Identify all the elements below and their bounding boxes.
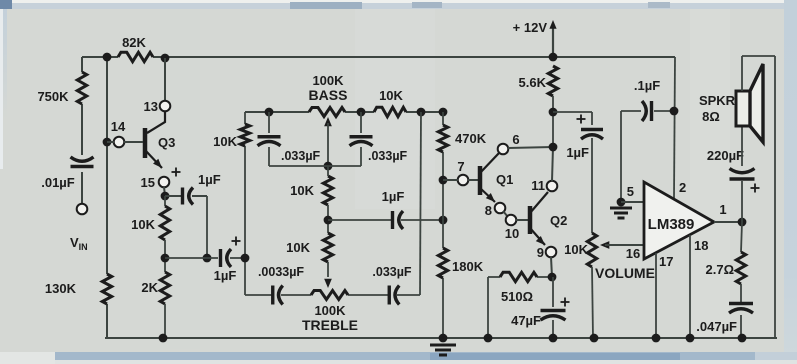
- label 6: [512, 132, 519, 147]
- resistor 5.6K: [548, 66, 557, 96]
- junction mid row left: [324, 216, 333, 225]
- svg-text:470K: 470K: [455, 131, 487, 146]
- svg-text:17: 17: [659, 254, 673, 269]
- junction volume at rail: [590, 334, 599, 343]
- label 2: [679, 180, 686, 195]
- label 1µF (output coupling): [566, 145, 589, 160]
- label 9: [537, 245, 544, 260]
- svg-text:130K: 130K: [45, 281, 77, 296]
- wire Q3 collector column: [164, 58, 166, 101]
- junction Q2 emitter node: [548, 273, 557, 282]
- wire pin11 up: [552, 147, 553, 181]
- svg-text:2: 2: [679, 180, 686, 195]
- wire volume to rail: [592, 267, 593, 338]
- op-amp U1 LM389: [644, 182, 714, 259]
- label 5.6K: [519, 75, 547, 90]
- label .033µF (treble right): [372, 265, 412, 279]
- wire 220µF to speaker: [741, 126, 743, 166]
- svg-text:.1µF: .1µF: [634, 78, 660, 93]
- label 17: [659, 254, 673, 269]
- svg-text:180K: 180K: [452, 259, 484, 274]
- label Q1: [496, 172, 513, 187]
- resistor 510Ω: [500, 272, 537, 281]
- wire 510 row: [488, 276, 552, 278]
- svg-text:100K: 100K: [312, 73, 344, 88]
- wire pin9 down: [551, 257, 552, 277]
- wire mid row: [328, 219, 443, 221]
- label 130K: [45, 281, 77, 296]
- svg-text:13: 13: [144, 99, 158, 114]
- svg-text:2K: 2K: [141, 280, 158, 295]
- svg-text:1µF: 1µF: [566, 145, 589, 160]
- junction 180K at rail: [439, 334, 448, 343]
- resistor 10K (bass series): [374, 107, 406, 116]
- resistor 82K: [118, 52, 153, 61]
- svg-text:10K: 10K: [131, 217, 155, 232]
- wire pin13 to Q3 collector: [147, 111, 165, 133]
- wire volume wiper to pin16: [600, 241, 644, 249]
- resistor 2.7Ω: [736, 222, 745, 284]
- label .033µF (bass left): [281, 149, 321, 163]
- label 8: [485, 203, 492, 218]
- wire pin17: [655, 253, 657, 338]
- wire Q3 bias column x=107: [106, 57, 108, 338]
- svg-text:5.6K: 5.6K: [519, 75, 547, 90]
- svg-text:.01µF: .01µF: [41, 175, 75, 190]
- capacitor .1µF: [621, 101, 674, 121]
- label .033µF (bass right): [368, 149, 408, 163]
- wire 2K to ground rail: [164, 304, 166, 338]
- label 11: [531, 178, 545, 193]
- wire pin2 column: [674, 57, 675, 198]
- svg-text:.033µF: .033µF: [281, 149, 321, 163]
- junction pin5 node: [617, 198, 626, 207]
- label 47µF: [511, 313, 541, 328]
- capacitor 1µF (emitter bypass): [165, 188, 207, 259]
- svg-text:47µF: 47µF: [511, 313, 541, 328]
- svg-text:10K: 10K: [286, 240, 310, 255]
- pin 11: [547, 181, 558, 192]
- wire bass caps bottom row: [269, 165, 361, 167]
- svg-text:10K: 10K: [379, 88, 403, 103]
- label 1µF (treble feed): [382, 189, 405, 204]
- label 10K (lower middle): [286, 240, 310, 255]
- transistor Q1: [480, 153, 499, 205]
- junction below pin15: [161, 192, 170, 201]
- wire .047µF to rail: [740, 315, 742, 338]
- svg-text:Q1: Q1: [496, 172, 513, 187]
- junction output node: [738, 218, 747, 227]
- capacitor 220µF: [730, 169, 755, 180]
- svg-text:6: 6: [512, 132, 519, 147]
- pin 14: [114, 137, 125, 148]
- wire bottom ground rail: [105, 337, 777, 339]
- junction mid row right: [439, 216, 448, 225]
- wire to coupling cap: [553, 112, 592, 125]
- junction tone out at 470K top: [439, 108, 448, 117]
- label 18: [694, 238, 708, 253]
- wire output up to 220µF: [741, 181, 743, 222]
- label 10K (volume): [564, 242, 588, 257]
- wire treble wiper: [324, 262, 332, 288]
- label + at 1µF coupling: [232, 237, 241, 246]
- svg-text:.033µF: .033µF: [368, 149, 408, 163]
- junction 1µF-cap tap: [203, 254, 212, 263]
- pin 9: [546, 247, 557, 258]
- resistor 10K (upper middle): [323, 176, 332, 205]
- capacitor 1µF (coupling to tone): [221, 249, 246, 267]
- wire emitter node column: [164, 240, 166, 272]
- label 10K (emitter): [131, 217, 155, 232]
- wire cap to volume pot: [591, 138, 593, 233]
- label +12V: [513, 20, 548, 35]
- resistor 180K: [438, 248, 447, 278]
- junction at 82K left: [103, 53, 112, 62]
- potentiometer 100K BASS: [309, 108, 345, 117]
- wire middle column: [327, 166, 329, 220]
- label 100K (treble): [314, 303, 346, 318]
- label 1: [719, 202, 726, 217]
- junction .047µF at rail: [738, 334, 747, 343]
- resistor 750K: [77, 72, 86, 104]
- label 2K: [141, 280, 158, 295]
- ground pin5: [610, 208, 632, 218]
- svg-text:220µF: 220µF: [707, 148, 744, 163]
- label 14: [111, 119, 126, 134]
- label 750K: [37, 89, 69, 104]
- label + at 220µF: [751, 184, 760, 193]
- wire +12V arrow: [549, 20, 556, 57]
- label SPKR: [699, 93, 736, 108]
- junction 1µF tap: [549, 108, 558, 117]
- junction emitter-RC node: [161, 254, 170, 263]
- capacitor 1µF (output coupling): [581, 130, 603, 140]
- svg-text:5: 5: [627, 184, 634, 199]
- svg-text:.033µF: .033µF: [372, 265, 412, 279]
- label .047µF: [696, 319, 737, 334]
- svg-text:10: 10: [505, 226, 519, 241]
- svg-text:LM389: LM389: [648, 216, 695, 233]
- svg-text:8: 8: [485, 203, 492, 218]
- wire .1µF left column: [620, 111, 622, 202]
- capacitor 47µF: [541, 277, 566, 338]
- label LM389: [648, 216, 695, 233]
- wire tone top row: [245, 111, 443, 113]
- wire 5.6K down: [552, 96, 554, 147]
- node V_IN terminal: [77, 204, 88, 215]
- label 82K: [122, 35, 146, 50]
- wire 2.7Ω to .047µF: [740, 284, 742, 302]
- svg-text:10K: 10K: [290, 183, 314, 198]
- svg-text:750K: 750K: [37, 89, 69, 104]
- label .01µF: [41, 175, 75, 190]
- wire treble bottom row: [245, 294, 420, 296]
- wire left input column (750K/V_IN branch): [81, 57, 83, 203]
- svg-text:16: 16: [626, 246, 640, 261]
- label 5: [627, 184, 634, 199]
- label 220µF: [707, 148, 744, 163]
- svg-text:BASS: BASS: [309, 87, 348, 103]
- wire pin15 down: [164, 187, 165, 196]
- junction supply rail tap: [549, 53, 558, 62]
- label V_IN: [70, 235, 88, 252]
- label + at 47µF: [561, 298, 570, 307]
- junction tone input node: [241, 254, 250, 263]
- wire pin8 to pin10: [503, 211, 508, 217]
- junction 2K at rail: [159, 334, 168, 343]
- wire pin6 to supply node: [508, 147, 553, 148]
- pin 6: [498, 144, 509, 155]
- svg-text:82K: 82K: [122, 35, 146, 50]
- wire pin5: [621, 201, 644, 203]
- capacitor .033µF (bass left): [258, 112, 281, 166]
- label .1µF: [634, 78, 660, 93]
- resistor 10K (tone input): [240, 124, 249, 146]
- capacitor .01µF: [71, 157, 94, 167]
- svg-text:10K: 10K: [564, 242, 588, 257]
- capacitor .033µF (bass right): [350, 112, 373, 166]
- wire tone input column x=245: [244, 112, 246, 295]
- label 1µF (coupling): [214, 268, 237, 283]
- speaker SPKR: [736, 64, 763, 142]
- resistor 470K: [438, 125, 447, 152]
- junction pin18 at rail: [686, 334, 695, 343]
- junction pin6/11 node: [549, 143, 558, 152]
- label 2.7Ω: [706, 262, 735, 277]
- label 13: [144, 99, 158, 114]
- svg-text:1: 1: [719, 202, 726, 217]
- svg-text:SPKR: SPKR: [699, 93, 736, 108]
- junction .1µF right: [670, 107, 679, 116]
- svg-text:8Ω: 8Ω: [702, 109, 720, 124]
- svg-text:1µF: 1µF: [198, 172, 221, 187]
- junction tone out top: [417, 108, 426, 117]
- svg-text:Q3: Q3: [158, 135, 175, 150]
- wire pin10 to Q2 base: [516, 219, 528, 221]
- wire node row y258: [165, 257, 218, 259]
- svg-text:1µF: 1µF: [214, 268, 237, 283]
- pin 13: [160, 101, 171, 112]
- junction bass cap left: [265, 108, 274, 117]
- pin 10: [506, 215, 517, 226]
- capacitor .033µF (treble right): [389, 286, 399, 305]
- wire 510 left leg: [487, 277, 489, 338]
- label 15: [141, 175, 155, 190]
- svg-text:14: 14: [111, 119, 126, 134]
- wire right edge return: [774, 56, 776, 338]
- label 510Ω: [501, 289, 533, 304]
- resistor 10K (lower middle): [323, 220, 332, 262]
- transistor Q3: [145, 128, 165, 170]
- wire tone out column x=421: [420, 112, 421, 295]
- label 10K (tone input): [213, 134, 237, 149]
- potentiometer 100K TREBLE: [311, 291, 348, 300]
- wire pin18: [689, 235, 691, 338]
- wire tone out to Q1 column: [442, 112, 444, 338]
- svg-text:18: 18: [694, 238, 708, 253]
- svg-text:11: 11: [531, 178, 545, 193]
- svg-text:7: 7: [457, 159, 464, 174]
- label 470K: [455, 131, 487, 146]
- junction Q1 base node: [439, 176, 448, 185]
- junction pin17 at rail: [652, 334, 661, 343]
- svg-text:TREBLE: TREBLE: [302, 317, 358, 333]
- junction bass wiper at cap row: [324, 162, 333, 171]
- svg-text:10K: 10K: [213, 134, 237, 149]
- label 8Ω: [702, 109, 720, 124]
- pin 15: [159, 177, 170, 188]
- wire pin7: [443, 179, 478, 181]
- label Q2: [550, 213, 567, 228]
- resistor 2K: [160, 272, 169, 304]
- label 10K (upper middle): [290, 183, 314, 198]
- resistor 10K (emitter): [160, 196, 169, 240]
- junction 47µF at rail: [549, 334, 558, 343]
- pin 7: [458, 175, 469, 186]
- wire bass wiper: [324, 117, 332, 166]
- label .0033µF: [258, 265, 304, 279]
- junction Q3 base node: [103, 138, 112, 147]
- label 10K (bass series): [379, 88, 403, 103]
- resistor 130K: [102, 274, 111, 304]
- svg-text:+ 12V: + 12V: [513, 20, 548, 35]
- label 100K (bass): [312, 73, 344, 88]
- junction bass cap right: [357, 108, 366, 117]
- transistor Q2: [530, 192, 548, 248]
- wire top supply rail: [82, 56, 675, 58]
- svg-text:1µF: 1µF: [382, 189, 405, 204]
- svg-text:9: 9: [537, 245, 544, 260]
- svg-text:.047µF: .047µF: [696, 319, 737, 334]
- label BASS: [309, 87, 348, 103]
- label VOLUME: [595, 265, 655, 281]
- pin 8: [495, 203, 506, 214]
- label 16: [626, 246, 640, 261]
- svg-text:.0033µF: .0033µF: [258, 265, 304, 279]
- svg-text:100K: 100K: [314, 303, 346, 318]
- capacitor 1µF (treble feed): [393, 211, 404, 229]
- label TREBLE: [302, 317, 358, 333]
- label + at output coupling: [577, 115, 586, 124]
- capacitor .0033µF (treble left): [273, 286, 283, 305]
- potentiometer 10K VOLUME: [587, 233, 596, 267]
- svg-text:15: 15: [141, 175, 155, 190]
- label 10: [505, 226, 519, 241]
- label 1µF (emitter bypass): [198, 172, 221, 187]
- ground main: [430, 345, 456, 355]
- wire pin1 output: [714, 221, 742, 223]
- junction at 82K right: [161, 54, 170, 63]
- svg-text:Q2: Q2: [550, 213, 567, 228]
- capacitor .047µF: [729, 304, 753, 314]
- label + at pin15: [172, 168, 181, 177]
- svg-text:VOLUME: VOLUME: [595, 265, 655, 281]
- svg-text:2.7Ω: 2.7Ω: [706, 262, 735, 277]
- label 180K: [452, 259, 484, 274]
- label 7: [457, 159, 464, 174]
- wire speaker top: [742, 56, 775, 91]
- junction 510 at rail: [484, 334, 493, 343]
- svg-text:510Ω: 510Ω: [501, 289, 533, 304]
- label Q3: [158, 135, 175, 150]
- wire base of Q3: [107, 141, 143, 143]
